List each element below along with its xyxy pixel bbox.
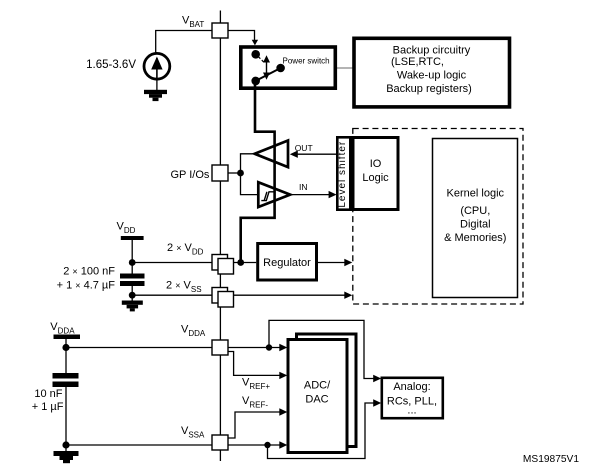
svg-text:OUT: OUT (295, 143, 313, 153)
svg-text:Backup registers): Backup registers) (386, 83, 472, 95)
svg-text:& Memories): & Memories) (444, 232, 506, 244)
svg-text:Wake-up logic: Wake-up logic (397, 69, 467, 81)
svg-text:DAC: DAC (305, 393, 328, 405)
svg-text:Level shifter: Level shifter (337, 141, 348, 208)
svg-text:Logic: Logic (362, 172, 389, 184)
svg-text:(CPU,: (CPU, (460, 205, 490, 217)
svg-text:+ 1 × 4.7 µF: + 1 × 4.7 µF (57, 280, 116, 292)
svg-text:10 nF: 10 nF (34, 388, 62, 400)
svg-text:ADC/: ADC/ (304, 379, 331, 391)
svg-text:1.65-3.6V: 1.65-3.6V (86, 59, 136, 71)
svg-text:Kernel logic: Kernel logic (447, 188, 505, 200)
svg-text:(LSE,RTC,: (LSE,RTC, (391, 56, 444, 68)
svg-text:Digital: Digital (460, 219, 491, 231)
svg-text:MS19875V1: MS19875V1 (523, 454, 579, 465)
svg-text:IO: IO (370, 158, 382, 170)
svg-text:Regulator: Regulator (263, 257, 311, 269)
svg-text:...: ... (407, 405, 416, 417)
svg-text:GP I/Os: GP I/Os (171, 169, 210, 181)
svg-text:IN: IN (299, 182, 308, 192)
svg-text:Analog:: Analog: (393, 381, 430, 393)
svg-text:Power switch: Power switch (283, 56, 330, 65)
svg-text:+ 1 µF: + 1 µF (32, 401, 64, 413)
svg-text:2 × 100 nF: 2 × 100 nF (63, 266, 115, 278)
svg-text:Backup circuitry: Backup circuitry (393, 44, 471, 56)
